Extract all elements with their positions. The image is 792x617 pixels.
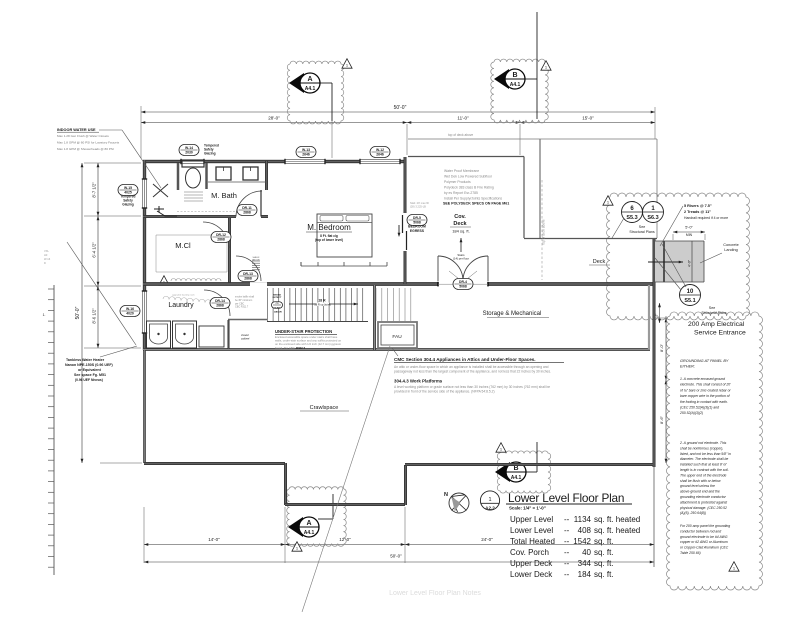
svg-text:Storage & Mechanical: Storage & Mechanical [483,311,542,317]
svg-text:M. Bath: M. Bath [211,191,237,200]
svg-text:cabinet: cabinet [241,337,250,341]
svg-text:S6.3: S6.3 [647,215,658,221]
svg-text:A2.2: A2.2 [485,506,495,511]
svg-text:physical damage. (CEC 250.52: physical damage. (CEC 250.52 [679,506,727,510]
svg-text:GROUNDING AT PANEL BY: GROUNDING AT PANEL BY [680,359,729,363]
svg-text:grounding electrode conductor: grounding electrode conductor [680,495,727,499]
svg-text:top of deck above: top of deck above [542,219,546,244]
svg-text:4'-0": 4'-0" [688,259,692,267]
svg-text:SEE POLYDECK SPECS ON PAGE M61: SEE POLYDECK SPECS ON PAGE M61 [443,202,509,206]
svg-text:sq. ft.: sq. ft. [594,548,614,557]
svg-text:Lower Deck: Lower Deck [510,570,553,579]
svg-text:2646: 2646 [376,152,384,156]
svg-text:50'-0": 50'-0" [390,554,402,559]
svg-text:2. A ground rod electrode. Thi: 2. A ground rod electrode. This [679,441,727,445]
svg-text:2646: 2646 [302,152,310,156]
svg-text:CMC Section 304.4 Appliances i: CMC Section 304.4 Appliances in Attics a… [394,357,536,362]
svg-text:Scale: 1/4" = 1'-0": Scale: 1/4" = 1'-0" [509,506,546,511]
svg-text:1. A concrete encased ground: 1. A concrete encased ground [680,377,725,381]
svg-text:or Copper-Clad Aluminum (CEC: or Copper-Clad Aluminum (CEC [680,546,729,550]
svg-text:Concrete: Concrete [723,243,738,247]
svg-text:8'-6 1/2": 8'-6 1/2" [92,308,97,324]
svg-text:2868: 2868 [216,303,224,307]
svg-text:184 sq. ft.: 184 sq. ft. [452,229,470,234]
svg-text:board. Per CBC: board. Per CBC [275,346,295,350]
svg-text:40: 40 [582,548,591,557]
svg-text:Laundry: Laundry [168,302,194,309]
svg-text:electrode. This shall consist: electrode. This shall consist of 20' [680,383,731,387]
svg-text:50'-0": 50'-0" [394,105,407,111]
svg-text:Slab: 29' max fill: Slab: 29' max fill [410,201,429,205]
svg-text:diameter. The electrode shall: diameter. The electrode shall be [680,457,728,461]
svg-text:5068: 5068 [459,284,467,288]
svg-text:DR-14: DR-14 [215,299,225,303]
svg-text:ground level unless the: ground level unless the [680,484,715,488]
svg-text:R302.7: R302.7 [296,346,305,350]
svg-text:14'-0": 14'-0" [208,537,220,542]
svg-text:S5.1: S5.1 [684,298,695,304]
svg-text:ABOVE: ABOVE [274,311,282,314]
svg-text:N: N [444,492,448,498]
svg-text:Deck: Deck [593,259,606,265]
svg-text:DR-4: DR-4 [459,280,467,284]
svg-text:shall be nonferrous (copper),: shall be nonferrous (copper), [680,446,723,450]
svg-text:BEDROOM: BEDROOM [408,225,426,229]
svg-text:above-ground end and the: above-ground end and the [680,490,720,494]
svg-text:ALRM: ALRM [274,306,280,309]
svg-text:UNDER-STAIR PROTECTION: UNDER-STAIR PROTECTION [275,329,332,334]
svg-text:Lower Level Floor Plan: Lower Level Floor Plan [508,491,624,505]
svg-text:12'-0": 12'-0" [339,537,351,542]
svg-text:(A)(5), 250.64(8)): (A)(5), 250.64(8)) [680,511,706,515]
svg-text:250.52(A)(3)(2): 250.52(A)(3)(2) [679,411,703,415]
svg-text:18 R: 18 R [318,299,326,303]
svg-text:408: 408 [578,526,592,535]
svg-text:11'-0": 11'-0" [457,116,469,121]
svg-text:A4.1: A4.1 [304,530,315,536]
svg-text:W-15: W-15 [124,186,132,190]
svg-text:B: B [513,465,518,472]
svg-text:listed, and not be less than 5: listed, and not be less than 5/8" in [680,452,731,456]
svg-text:A4.1: A4.1 [305,86,316,92]
svg-text:Glazing: Glazing [204,152,216,156]
svg-text:Nanon NPE-150S (0.96 UEF): Nanon NPE-150S (0.96 UEF) [65,363,114,367]
svg-text:Max 1.8 GPM @ Showerheads @ 80: Max 1.8 GPM @ Showerheads @ 80 PSI [57,147,114,151]
svg-text:Install Per Supply/Joints Spec: Install Per Supply/Joints Specifications [444,197,502,201]
svg-text:4020: 4020 [126,311,134,315]
svg-text:(top of lower level): (top of lower level) [315,238,343,242]
svg-text:B: B [512,72,517,79]
svg-text:--: -- [564,515,570,524]
svg-text:DR-5: DR-5 [413,216,421,220]
svg-text:H3: H3 [44,253,48,257]
svg-text:15'-0": 15'-0" [582,116,594,121]
svg-text:top of deck above: top of deck above [448,133,473,137]
svg-text:See: See [639,225,645,229]
svg-text:S5.3: S5.3 [626,215,637,221]
svg-text:by es Report Esr-2785: by es Report Esr-2785 [444,191,478,195]
svg-text:Water Proof Membrane: Water Proof Membrane [444,169,479,173]
svg-text:2868: 2868 [244,276,252,280]
svg-text:6": 6" [655,314,659,317]
svg-text:28'-0": 28'-0" [268,116,280,121]
svg-text:ABOVE: ABOVE [252,258,260,261]
svg-text:conductor between rod and: conductor between rod and [680,529,721,533]
svg-text:provided in front of the servi: provided in front of the service side of… [394,390,495,394]
svg-text:W-16: W-16 [44,257,51,261]
svg-text:--: -- [564,559,570,568]
svg-text:Service Entrance: Service Entrance [694,330,746,337]
svg-text:CBC R311.7: CBC R311.7 [235,306,249,309]
svg-text:--: -- [564,570,570,579]
svg-text:5 Risers @ 7.5": 5 Risers @ 7.5" [684,204,712,208]
svg-text:Crawlspace: Crawlspace [310,405,339,411]
svg-text:W-16: W-16 [126,307,134,311]
svg-text:344: 344 [578,559,592,568]
svg-text:2868: 2868 [243,210,251,214]
svg-text:length is in contract with the: length is in contract with the soil. [680,468,729,472]
svg-text:sq. ft. heated: sq. ft. heated [594,526,640,535]
svg-text:8'-0": 8'-0" [659,343,664,352]
svg-text:or Equivalent: or Equivalent [78,368,102,372]
svg-text:installed such that at least 8: installed such that at least 8' of [680,463,727,467]
svg-text:24'-0": 24'-0" [481,537,493,542]
svg-text:DETECT: DETECT [273,297,282,299]
svg-text:W-14: W-14 [185,146,193,150]
svg-text:A: A [306,520,311,527]
svg-text:MIN: MIN [686,233,693,237]
svg-text:2868: 2868 [217,237,225,241]
svg-text:1134: 1134 [574,515,592,524]
svg-text:sq. ft.: sq. ft. [594,570,614,579]
svg-text:See: See [709,306,715,310]
svg-text:D: D [44,261,46,265]
svg-text:A4.1: A4.1 [510,82,521,88]
svg-text:8'-6": 8'-6" [659,415,664,424]
svg-text:M. Bedroom: M. Bedroom [307,223,351,232]
svg-text:Table 250.66): Table 250.66) [680,551,701,555]
svg-text:A4.1: A4.1 [511,475,522,481]
svg-text:An attic or under-floor space: An attic or under-floor space in which a… [394,365,549,369]
svg-text:Cov.: Cov. [454,214,466,220]
svg-text:EGRESS: EGRESS [410,229,425,233]
svg-text:(28) 3.225-LB: (28) 3.225-LB [410,204,426,208]
svg-text:Tankless Water Heater: Tankless Water Heater [66,358,105,362]
svg-text:closed: closed [241,333,249,337]
svg-text:1: 1 [488,497,491,503]
svg-text:DR-12: DR-12 [216,233,226,237]
svg-text:10: 10 [687,289,694,295]
svg-text:Structural Plans: Structural Plans [701,311,727,315]
svg-text:50'-0": 50'-0" [75,306,81,319]
svg-text:Wet Dek Low Powered Subfloor: Wet Dek Low Powered Subfloor [444,175,493,179]
svg-text:INDOOR WATER USE: INDOOR WATER USE [57,128,96,132]
svg-text:200 Amp Electrical: 200 Amp Electrical [688,321,745,328]
svg-text:Polydeck 383 class B Fire Rati: Polydeck 383 class B Fire Rating [444,186,494,190]
svg-text:passageway not less than the l: passageway not less than the largest com… [394,370,551,374]
svg-text:2 Treads @ 11": 2 Treads @ 11" [684,210,711,214]
svg-text:304.4.3 Work Platforms: 304.4.3 Work Platforms [394,379,443,384]
svg-text:For 200 amp panel the groundin: For 200 amp panel the grounding [680,524,730,528]
svg-text:DR-13: DR-13 [243,272,253,276]
svg-text:A level working platform or gr: A level working platform or grade surfac… [394,385,550,389]
svg-text:copper or #2 AWG or Aluminum: copper or #2 AWG or Aluminum [680,540,728,544]
svg-text:Lower Level: Lower Level [510,526,553,535]
svg-text:sq. ft. heated: sq. ft. heated [594,515,640,524]
svg-text:shall be flush with or below: shall be flush with or below [680,479,721,483]
svg-text:Deck: Deck [453,221,467,227]
svg-text:A: A [307,76,312,83]
svg-text:upgraded laundry room: upgraded laundry room [172,294,195,297]
svg-text:184: 184 [578,570,592,579]
svg-text:5'-0": 5'-0" [685,226,693,230]
svg-text:--: -- [564,526,570,535]
svg-text:Max 1.28 Gal. Flush @ Water Cl: Max 1.28 Gal. Flush @ Water Closets [57,134,109,138]
svg-text:the footing in contact with ea: the footing in contact with earth. [680,400,728,404]
svg-text:W-13: W-13 [302,148,310,152]
svg-text:EITHER:: EITHER: [680,365,695,369]
svg-text:ground electrode to be #4 AWG: ground electrode to be #4 AWG [680,535,728,539]
svg-text:Cov. Porch: Cov. Porch [510,548,549,557]
svg-text:18 R up (total): 18 R up (total) [314,302,331,306]
svg-text:Handrail required if 4 or more: Handrail required if 4 or more [684,216,728,220]
svg-text:See space Fg. M51: See space Fg. M51 [74,373,106,377]
svg-text:8'-7 1/2": 8'-7 1/2" [92,182,97,198]
svg-text:(0.96 UEF Niveus): (0.96 UEF Niveus) [75,378,103,382]
svg-text:Polymer Products: Polymer Products [444,180,471,184]
svg-text:Max 1.8 GPM @ 60 PSI for Lavat: Max 1.8 GPM @ 60 PSI for Lavatory Faucet… [57,141,120,145]
svg-text:(14) per floor: (14) per floor [453,256,469,260]
svg-text:The upper end of the electrode: The upper end of the electrode [680,473,726,477]
svg-text:FAU: FAU [392,334,402,340]
svg-text:Upper Level: Upper Level [510,515,553,524]
svg-text:--: -- [564,548,570,557]
svg-text:1.: 1. [43,313,46,317]
svg-text:W-12: W-12 [376,148,384,152]
svg-text:Lower Level Floor Plan Not: Lower Level Floor Plan Notes [389,590,481,597]
svg-text:2030: 2030 [185,150,193,154]
svg-text:Glazing: Glazing [122,203,134,207]
svg-text:M.Cl: M.Cl [175,241,191,250]
svg-text:6'-4 1/2": 6'-4 1/2" [92,242,97,258]
svg-text:VXL: VXL [44,249,49,253]
svg-text:Structural Plans: Structural Plans [629,230,655,234]
svg-text:attachment is protected agains: attachment is protected against [680,500,728,504]
svg-text:bare copper wire in the portio: bare copper wire in the portion of [680,394,731,398]
svg-text:(CEC 250.52(A)(3)(1) and: (CEC 250.52(A)(3)(1) and [680,406,719,410]
svg-text:Landing: Landing [724,248,738,252]
svg-text:of ¾" bare or zinc-coated reba: of ¾" bare or zinc-coated rebar or [680,388,731,392]
svg-text:Upper Deck: Upper Deck [510,559,553,568]
svg-text:sq. ft.: sq. ft. [594,559,614,568]
svg-text:DR-11: DR-11 [242,206,252,210]
